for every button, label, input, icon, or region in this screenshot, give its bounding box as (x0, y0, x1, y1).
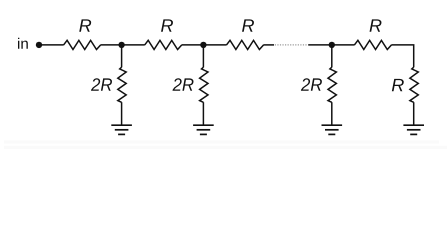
resistor R4 (series, value R) (354, 40, 391, 49)
wire: node B to R3 (203, 44, 226, 46)
ground symbol at termination branch (403, 125, 424, 134)
resistor R3 (series, value R) (227, 40, 264, 49)
ground symbol at node C branch (322, 125, 343, 134)
wire: input to R1 (39, 44, 64, 46)
wire: node B down to shunt resistor (202, 45, 204, 67)
resistor 2R shunt at node C (328, 67, 336, 102)
resistor R1 (series, value R) (64, 40, 101, 49)
wire: shunt resistor at node B to ground (202, 102, 204, 124)
resistor 2R shunt at node B (200, 67, 208, 102)
ground symbol at node A branch (111, 125, 132, 134)
wire: continuation break to node C (308, 44, 332, 46)
label 2R (shunt value at node C) (301, 78, 322, 91)
wire: R4 to right corner, turning down (391, 45, 413, 67)
node A junction dot (118, 42, 124, 48)
node "in" label (18, 38, 28, 49)
label 2R (shunt value at node A) (91, 78, 112, 91)
wire: R1 to node A (101, 44, 122, 46)
node B junction dot (200, 42, 206, 48)
label R (R3 value) (242, 19, 254, 31)
ground symbol at node B branch (193, 125, 214, 134)
wire: R2 to node B (182, 44, 204, 46)
resistor 2R shunt at node A (118, 67, 126, 102)
label 2R (shunt value at node B) (172, 78, 193, 91)
wire: R3 to continuation break (264, 44, 275, 46)
label R (termination value) (392, 79, 404, 91)
label R (R4 value) (370, 19, 382, 31)
label R (R1 value) (79, 19, 91, 31)
node C junction dot (329, 42, 335, 48)
resistor R termination (vertical) (410, 67, 418, 102)
resistor R2 (series, value R) (145, 40, 182, 49)
wire: node A down to shunt resistor (121, 45, 123, 67)
wire: shunt resistor at node A to ground (121, 102, 123, 124)
wire: termination resistor to ground (413, 102, 415, 124)
wire: shunt resistor at node C to ground (331, 102, 333, 124)
label R (R2 value) (161, 19, 173, 31)
wire: dotted continuation (ladder continues) (275, 44, 307, 46)
wire: node C down to shunt resistor (331, 45, 333, 67)
input terminal node dot (36, 42, 42, 48)
wire: node C to R4 (332, 44, 355, 46)
wire: node A to R2 (122, 44, 145, 46)
